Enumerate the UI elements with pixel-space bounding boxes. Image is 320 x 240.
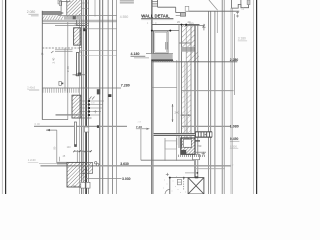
lower slab line 1 [154, 132, 196, 134]
plus tick bottom right [202, 152, 206, 156]
ledge line 1 [55, 49, 73, 51]
small dim tick bottom-left [59, 157, 61, 162]
dim cross tick h [202, 26, 205, 28]
right wall inner face dark [194, 25, 196, 178]
soil stipple dots [163, 176, 186, 193]
anchor slot A [76, 53, 78, 76]
masonry cell row bottom [195, 136, 212, 138]
frame right border [256, 0, 258, 194]
line right of basement box [195, 151, 206, 153]
svg-text:2.40x3: 2.40x3 [27, 85, 35, 89]
svg-text:WALL DETAIL: WALL DETAIL [141, 13, 170, 18]
cellar door frame [165, 141, 177, 149]
frame left inner line [1, 0, 3, 194]
svg-text:140: 140 [67, 146, 72, 149]
bottom small box 1 [81, 182, 85, 188]
leader 3 [81, 107, 102, 109]
top step vertical [175, 7, 177, 12]
right wall core hatch upper [182, 25, 196, 47]
anchor slot B [74, 122, 76, 145]
arrow leader mid [46, 129, 57, 131]
leader vertical mid [140, 129, 142, 160]
wall layer light a [184, 62, 186, 148]
vertical dim left of wall [172, 104, 174, 122]
footing tiny rect [177, 179, 181, 184]
small box mid [85, 127, 89, 132]
roof dark chunk [73, 16, 76, 20]
svg-text:0.300: 0.300 [230, 144, 237, 148]
wall tie lines [179, 42, 192, 43]
anchor blob [78, 73, 81, 76]
left wall face line d [88, 0, 90, 194]
step outline [77, 20, 86, 25]
level label underline r2 [230, 147, 238, 149]
svg-text:2.080: 2.080 [27, 10, 36, 14]
right strip stub line [216, 11, 218, 33]
right wall gray block [182, 47, 196, 52]
ladder rungs [152, 2, 158, 6]
center grid line dark [151, 0, 153, 194]
wall tie top 2 [81, 8, 88, 10]
drop rod vertical [56, 130, 58, 163]
footing dashed vertical [183, 179, 185, 190]
right lintel line 2 [152, 30, 179, 32]
roof gray arrow band [42, 11, 64, 15]
bottom-left leader [39, 162, 57, 164]
concrete block C [67, 162, 85, 187]
footing tiny rect divider [177, 181, 181, 183]
dim vertical x67.8 [67, 22, 69, 120]
dim tick A2 [78, 73, 80, 75]
step corner hatch [75, 21, 81, 25]
arc stem dot [169, 177, 171, 179]
lintel dot 2 [185, 24, 187, 26]
right wall hatch mid [186, 52, 199, 62]
label 7.28 underline [136, 128, 146, 130]
floor comb ticks [43, 88, 78, 93]
svg-text:3.030: 3.030 [122, 177, 131, 181]
masonry cells [196, 132, 212, 137]
top-left leader line 2 [31, 15, 39, 17]
right wall hatch lower [182, 62, 191, 145]
roof insulation zigzag [42, 16, 64, 20]
stub vertical 1 [76, 150, 78, 163]
thick gray arrow [57, 162, 67, 165]
right wall inner face thin [197, 25, 199, 178]
drain arc [165, 189, 170, 194]
ladder rail [157, 0, 159, 7]
second bottom line right [195, 168, 225, 170]
cellar door vertical 2 [176, 138, 178, 161]
title underline [141, 18, 173, 20]
slab bottom dark edge [151, 59, 173, 61]
top small box [180, 13, 185, 17]
percent circle 1 [95, 162, 97, 164]
frame left border [5, 0, 7, 194]
step line bottom center [141, 159, 194, 161]
dim 240 line [181, 114, 192, 116]
left wall layer line g [102, 0, 104, 194]
dim vertical x65 [64, 48, 66, 91]
roof slab gray fill [64, 16, 82, 20]
datum mark line 2 [120, 2, 134, 4]
dim vertical x42 [41, 11, 43, 120]
right wall core right edge [190, 25, 192, 149]
slab top edge [146, 53, 173, 55]
leader 4 [81, 111, 101, 113]
elevation leader [134, 57, 149, 59]
parapet corner box [58, 0, 61, 4]
svg-text:3.180: 3.180 [238, 37, 246, 41]
footing dot 2 [183, 177, 185, 179]
vertical dim arrows [172, 104, 174, 122]
dim cross tick [203, 24, 205, 31]
elevation underline [131, 55, 146, 57]
leader 2 [81, 104, 103, 106]
leader 3 dot [88, 107, 90, 109]
right strip layer line b [210, 11, 212, 194]
parapet small box [59, 1, 61, 5]
right strip light line b [231, 8, 233, 194]
frame right inner line [253, 0, 255, 194]
window box [154, 31, 169, 54]
footing top square [195, 176, 198, 178]
basement inner white box [183, 139, 191, 147]
left wall face line b [81, 0, 83, 194]
svg-text:25: 25 [73, 185, 77, 189]
footing top leader [170, 177, 188, 179]
dot on level line [97, 125, 99, 128]
right downpipe line [234, 14, 236, 95]
lintel dot 1 [181, 24, 183, 26]
left wall layer line i [112, 0, 114, 194]
dim arrow x42 [41, 52, 43, 55]
svg-text:240: 240 [175, 110, 180, 114]
block B bottom extension [81, 117, 92, 119]
parapet edge line [60, 0, 62, 16]
right lintel line 1 [152, 24, 200, 26]
right strip layer line d [223, 0, 225, 194]
lintel dot 3 [151, 30, 153, 32]
leader 2 dot [88, 104, 90, 106]
strip top edge line [80, 50, 117, 52]
masonry cell row lines [195, 131, 212, 133]
left mid label line2 [29, 90, 39, 92]
leader cross mark [94, 110, 98, 113]
bottom-left label underline [28, 161, 39, 163]
column coupler box [193, 154, 200, 160]
bottom small box 2 [86, 182, 90, 188]
lower slab gray fill [154, 133, 196, 135]
floor comb base line [43, 87, 122, 89]
roof line 3 [42, 23, 89, 25]
left wall layer line j [116, 0, 118, 194]
left wall face line c [82, 0, 84, 194]
footing X box [188, 178, 204, 194]
tiny dim dot [62, 83, 64, 85]
right wall face 2 [181, 25, 183, 149]
dashed top line [42, 47, 81, 49]
top step line 3 [176, 15, 186, 17]
wall layer light b [186, 62, 188, 148]
arc stem [169, 178, 171, 194]
left wall finish line a [79, 14, 81, 194]
label 7.28 arrow [146, 128, 149, 130]
strip tie line y55 [80, 55, 117, 57]
dim line bottom-left strip [74, 150, 92, 152]
mid plus tick left [166, 173, 169, 176]
right strip layer line a [208, 11, 210, 194]
svg-text:1.2x30: 1.2x30 [28, 158, 36, 162]
svg-text:0.00: 0.00 [35, 122, 41, 126]
lintel dot 4 [169, 30, 171, 32]
wall cavity line [66, 0, 68, 16]
room bottom line [152, 87, 177, 89]
svg-text:2.280: 2.280 [230, 58, 239, 62]
level label underline r [230, 140, 240, 142]
floor junction dark blob [97, 89, 100, 94]
svg-text:2.40: 2.40 [66, 66, 70, 72]
ceiling line 2 [56, 115, 83, 117]
left mid label underline [27, 88, 39, 90]
roof line 1 [42, 19, 117, 21]
concrete patch D [82, 163, 93, 174]
cellar door vertical 1 [164, 138, 166, 161]
svg-text:150: 150 [197, 144, 202, 148]
basement dark corner [181, 150, 186, 154]
svg-text:2.40: 2.40 [52, 57, 56, 63]
leader 5 [81, 114, 100, 116]
basement comb row [179, 155, 205, 157]
parapet bracket 1 [232, 0, 241, 8]
top step line 2 [176, 12, 186, 14]
ceiling line 1 [56, 113, 83, 115]
roof line 2 [42, 21, 117, 23]
parapet top line [61, 1, 70, 3]
leader diagonal [209, 0, 218, 10]
center thin line [153, 31, 155, 194]
svg-text:4.180: 4.180 [131, 52, 140, 56]
roof line 4 [55, 25, 89, 27]
svg-text:3.630: 3.630 [120, 162, 129, 166]
coping long line [186, 10, 240, 12]
small tick mark [51, 51, 54, 53]
parapet bracket 2 [241, 0, 249, 8]
arrow head mid [46, 129, 50, 131]
slab tick band [152, 60, 174, 62]
elevation 3.180 underline [238, 40, 247, 42]
basement hatch box [181, 138, 195, 154]
wall slab junction dash [195, 140, 200, 141]
svg-text:0.450: 0.450 [230, 137, 239, 141]
long gray level line mid right part [182, 125, 231, 127]
coping bits left [185, 6, 189, 11]
right strip light line a [230, 8, 232, 194]
concrete block A [74, 28, 81, 45]
title underline 2 [141, 19, 173, 21]
svg-text:4.550: 4.550 [120, 15, 129, 19]
top-left leader line 1 [28, 13, 38, 15]
window handle marks [166, 42, 168, 50]
left wall layer line h [107, 0, 109, 194]
dim line horizontal A [73, 74, 87, 76]
lower leader line [86, 178, 122, 180]
right wall core edge [185, 25, 187, 149]
leader 1 dot [88, 100, 90, 102]
right wall face 1 [178, 25, 180, 149]
tiny dim box [59, 82, 61, 86]
masonry cell cross 1 [205, 134, 207, 136]
floor slab gray [151, 54, 172, 61]
dim 240 arrows [181, 114, 192, 116]
parapet cap box [247, 0, 250, 5]
junction black square [83, 28, 86, 31]
right wall finish line [176, 60, 178, 145]
window inner outline [155, 32, 167, 52]
leader 4 dot [88, 111, 90, 113]
plus ticks right top [236, 11, 239, 18]
footing leader dot [196, 172, 198, 174]
ceiling leader line right [151, 61, 237, 63]
slot B bottom blob [74, 144, 77, 147]
long gray level line mid left part [34, 125, 127, 127]
dim ticks bottom-left [73, 150, 92, 152]
footing leader line [185, 172, 197, 174]
wall bottom edge [58, 15, 117, 17]
black square on strip line [108, 94, 111, 97]
ledge line 2 [55, 51, 73, 53]
percent circle 2 [97, 164, 99, 166]
long gray level line bottom [41, 165, 232, 167]
fixing small rect [80, 47, 82, 52]
strip tie line y28.8 [83, 28, 117, 30]
gray line right mid [182, 90, 234, 92]
datum mark line 1 [120, 0, 134, 2]
lower slab line 2 [154, 135, 196, 137]
leader 5 dot [88, 114, 90, 116]
leader 1 [81, 100, 104, 102]
svg-text:1.080: 1.080 [230, 124, 239, 128]
stub vertical 2 [81, 150, 83, 163]
mid level line short [42, 119, 68, 121]
concrete block B [72, 95, 81, 118]
dim tick A1 [75, 73, 77, 75]
left wall layer line f [99, 0, 101, 194]
left wall layer line e [94, 0, 96, 17]
dim row ticks [185, 25, 205, 27]
svg-text:7.280: 7.280 [121, 84, 130, 88]
right strip gray band [214, 11, 216, 194]
top step horizontal [158, 6, 176, 8]
top-left wall diagonal hatch [67, 0, 81, 17]
wall tie top 1 [81, 2, 88, 4]
dim row top right [186, 25, 204, 27]
left wall core dark line [85, 0, 87, 194]
right strip layer line c [221, 0, 223, 194]
dim marks above leaders [89, 97, 95, 100]
